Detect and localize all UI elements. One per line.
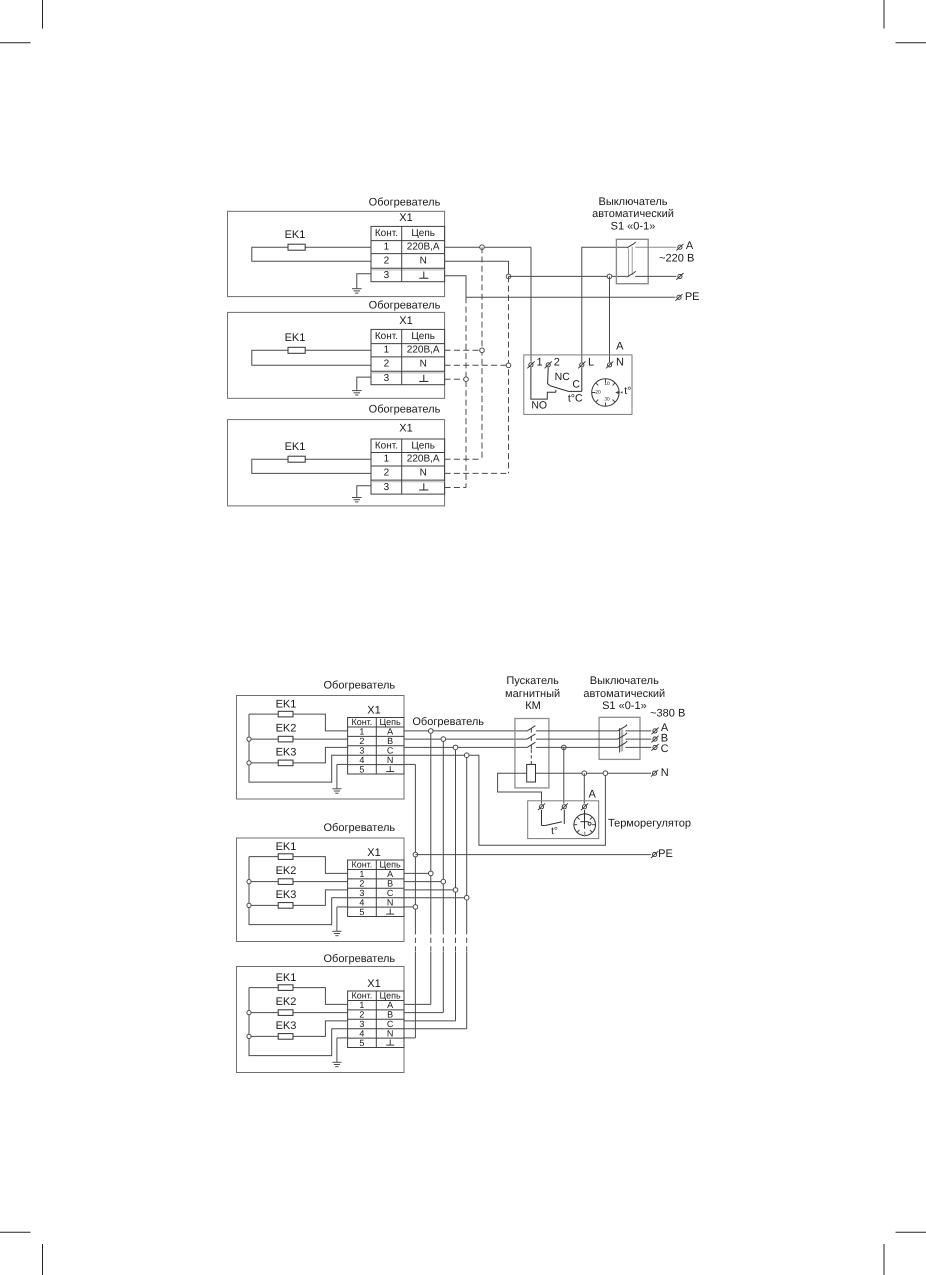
wire heater3 pin3 to bus C [404, 1020, 456, 1022]
contactor KM box [515, 719, 549, 788]
star junction nodes (heater 3 bottom) [247, 1011, 251, 1039]
ground symbol (heater 2 bottom) [332, 931, 341, 935]
heater 1 (top) enclosure box [228, 211, 445, 296]
heater 1 (top diagram) label Обогреватель [369, 196, 441, 208]
svg-text:5: 5 [359, 764, 364, 774]
svg-text:5: 5 [359, 1038, 364, 1048]
svg-text:Цепь: Цепь [379, 717, 401, 727]
breaker S1 linkage bars [629, 247, 633, 277]
thermostat NC fixed contact from terminal 2 [548, 368, 550, 386]
ground symbol (heater 3 bottom) [332, 1062, 341, 1066]
svg-text:X1: X1 [399, 315, 412, 327]
svg-text:2: 2 [554, 356, 560, 368]
svg-text:NC: NC [555, 371, 571, 383]
wire heater1 pin4 N around thermostat to N line [404, 753, 605, 845]
node label PE (bottom) [658, 848, 673, 860]
wire heater1 pin1 A to contactor KM [404, 729, 527, 734]
resistor EK3 (heater 3 bottom) [276, 1020, 297, 1039]
wire EK2 to pin 2 (heater 2 bottom) [293, 881, 348, 883]
resistor EK1 (heater 2 bottom) [276, 841, 297, 860]
thermostat label Терморегулятор [608, 817, 691, 829]
wire EK3 to pin 3 (heater 3 bottom) [293, 1021, 348, 1037]
wire EK1 right to pin 1 (heater 2 top) [305, 349, 371, 351]
svg-text:A: A [616, 340, 624, 352]
wire EK1 left loop to pin 2 (heater 1 top) [252, 247, 371, 261]
circuit breaker S1 box (bottom) [599, 717, 640, 759]
svg-text:EK2: EK2 [276, 996, 297, 1008]
svg-text:C: C [572, 379, 580, 391]
dashed wire heater2 pin1 to bus A [445, 348, 485, 353]
breaker S1 bottom linkage bars [620, 728, 622, 752]
svg-text:EK1: EK1 [276, 698, 297, 710]
svg-text:EK1: EK1 [276, 972, 297, 984]
breaker S1 pole 3 blade (bottom) [618, 741, 627, 747]
wire heater1 pin3 to PE line [445, 276, 676, 298]
svg-text:Пускатель: Пускатель [506, 675, 559, 687]
thermostat terminal 2 [545, 362, 552, 369]
svg-text:3: 3 [384, 270, 390, 281]
svg-text:2: 2 [359, 736, 364, 746]
svg-text:L: L [588, 357, 594, 369]
thermostat terminal 1 [527, 362, 534, 369]
wire heater1 pin1 (220V,A) to node, solid [445, 246, 531, 248]
svg-text:N: N [387, 898, 394, 908]
wire pin 3 to chassis ground (heater 1 top) [357, 274, 371, 289]
junction N to heater return [603, 771, 608, 776]
thermostat box (bottom) [528, 801, 599, 839]
svg-text:Выключатель: Выключатель [590, 675, 659, 687]
dashed wire heater2 pin3 to bus PE [445, 377, 469, 382]
terminal block X1 label (heater 2 top) [399, 315, 412, 327]
wire heater2 pin4 to bus N [404, 895, 469, 900]
junction node N to thermostat [607, 274, 612, 279]
svg-text:B: B [387, 1010, 393, 1020]
wire heater2 pin1 to bus A [404, 871, 433, 876]
svg-text:2: 2 [359, 1010, 364, 1020]
svg-text:Конт.: Конт. [375, 440, 398, 451]
wire heater1 pin2 B to contactor KM [404, 737, 527, 742]
star point wires to pin 4 N (heater 3 bottom) [249, 988, 348, 1056]
ground symbol (heater 3 top) [352, 498, 362, 502]
svg-text:Обогреватель: Обогреватель [369, 196, 441, 208]
heater 1 (bottom diagram) label Обогреватель [323, 680, 395, 692]
svg-text:X1: X1 [367, 704, 380, 716]
contactor KM contact 3 [527, 742, 535, 749]
svg-text:S1 «0-1»: S1 «0-1» [602, 700, 647, 712]
terminal block X1 table (heater 3 top) [371, 439, 445, 494]
svg-text:X1: X1 [399, 212, 412, 224]
wire heater2 pin3 to bus C [404, 888, 458, 893]
svg-text:Конт.: Конт. [351, 860, 372, 870]
resistor EK2 (heater 2 bottom) [276, 865, 297, 884]
crop mark top-right [884, 0, 926, 43]
svg-text:Выключатель: Выключатель [598, 196, 667, 208]
thermostat terminal N [606, 362, 613, 369]
junction N to dial [582, 771, 587, 776]
svg-text:~220 В: ~220 В [659, 253, 694, 265]
terminal PE (bottom) [651, 851, 658, 858]
wire N junction down to dial terminal [583, 773, 585, 803]
breaker S1 pole 2 blade (bottom) [618, 733, 627, 739]
resistor EK2 (heater 3 bottom) [276, 996, 297, 1015]
crop mark top-left [0, 0, 43, 43]
supply terminal C (bottom) [651, 744, 658, 751]
ground symbol (heater 1 top) [352, 289, 362, 293]
wire heater3 pin2 to bus B [404, 1012, 443, 1014]
wire EK1 left loop to pin 2 (heater 2 top) [252, 350, 371, 365]
resistor EK1 (heater 3 top) [285, 441, 306, 462]
svg-text:B: B [387, 879, 393, 889]
wire EK1 to pin 1 (heater 1 bottom) [293, 714, 348, 731]
heater 3 (bottom) enclosure box [237, 967, 405, 1073]
svg-text:Цепь: Цепь [379, 860, 401, 870]
wire breaker output A [635, 246, 676, 248]
resistor EK1 (heater 1 bottom) [276, 698, 297, 717]
svg-text:-20: -20 [594, 389, 601, 395]
PE line to terminal [415, 854, 651, 856]
supply terminal N (top) [676, 273, 683, 280]
wire EK1 left loop to pin 2 (heater 3 top) [252, 459, 371, 473]
heater 2 (top diagram) label Обогреватель [369, 299, 441, 311]
svg-text:Обогреватель: Обогреватель [369, 404, 441, 416]
node label PE (top) [685, 291, 700, 303]
dashed wire heater3 pin3 to bus PE [445, 487, 466, 489]
contactor KM label [505, 675, 560, 712]
breaker S1 pole 1 blade (bottom) [618, 725, 627, 731]
svg-text:EK3: EK3 [276, 747, 297, 759]
wire L terminal to common pivot [581, 368, 583, 392]
svg-text:2: 2 [384, 255, 390, 266]
svg-text:EK1: EK1 [285, 332, 306, 344]
dashed wire heater2 pin2 to bus N [445, 363, 511, 368]
breaker S1 pole 2 blade [627, 271, 636, 277]
svg-text:Цепь: Цепь [411, 440, 435, 451]
svg-text:220В,А: 220В,А [407, 345, 440, 356]
wire heater1 pin3 C to contactor KM [404, 745, 527, 750]
svg-text:Цепь: Цепь [411, 228, 435, 239]
wire KM coil left to thermostat [498, 773, 542, 803]
resistor EK2 (heater 1 bottom) [276, 722, 297, 741]
thermostat contact labels [531, 371, 583, 412]
svg-text:Обогреватель: Обогреватель [323, 680, 395, 692]
svg-text:2: 2 [384, 468, 390, 479]
wire EK3 to pin 3 (heater 1 bottom) [293, 747, 348, 763]
svg-text:30: 30 [604, 396, 610, 402]
svg-text:10: 10 [604, 381, 610, 387]
svg-text:EK3: EK3 [276, 889, 297, 901]
terminal block X1 label (heater 3 bottom) [367, 978, 380, 990]
thermostat dial assembly (top) [592, 379, 623, 406]
heater 2 (top) enclosure box [228, 312, 445, 398]
dashed wire heater3 pin1 to bus A [445, 458, 482, 460]
wires S1 output to terminals [625, 731, 651, 748]
bus PE vertical (bottom) [414, 764, 416, 1038]
ground symbol (heater 1 bottom) [332, 789, 341, 793]
terminal block X1 table (heater 1 bottom) [348, 717, 404, 774]
contactor KM contact 2 [527, 734, 535, 741]
star point wires to pin 4 N (heater 2 bottom) [249, 857, 348, 925]
thermostat terminal L [578, 362, 585, 369]
heater 2 (bottom) enclosure box [237, 838, 405, 942]
svg-text:EK1: EK1 [276, 841, 297, 853]
svg-text:t°: t° [624, 385, 631, 397]
wire pin 5 to chassis ground (heater 1 bottom) [337, 764, 348, 788]
crop mark bottom-right [884, 1232, 926, 1275]
svg-text:1: 1 [384, 454, 390, 465]
svg-text:220В,А: 220В,А [407, 454, 440, 465]
PE line junction [413, 852, 418, 857]
wire EK1 to pin 1 (heater 3 bottom) [293, 988, 348, 1005]
svg-text:Конт.: Конт. [351, 717, 372, 727]
svg-text:X1: X1 [367, 978, 380, 990]
svg-text:КМ: КМ [525, 700, 541, 712]
circuit breaker S1 label (bottom) [583, 675, 665, 712]
svg-text:X1: X1 [367, 847, 380, 859]
bus N vertical (bottom) [466, 755, 468, 1028]
terminal block X1 label (heater 1 bottom) [367, 704, 380, 716]
node label A and ~220V [659, 240, 694, 265]
svg-text:1: 1 [384, 242, 390, 253]
dashed bus A to heaters 2,3 (top) [481, 247, 483, 459]
thermostat dial (bottom) [574, 810, 596, 837]
svg-text:N: N [420, 255, 427, 266]
wire heater2 pin2 to bus B [404, 879, 446, 884]
svg-text:NO: NO [531, 400, 547, 412]
heater 3 (bottom diagram) label Обогреватель [323, 953, 395, 965]
label Обогреватель for bus cable (bottom) [412, 716, 484, 728]
svg-text:Обогреватель: Обогреватель [412, 716, 484, 728]
svg-text:C: C [661, 743, 669, 755]
svg-text:t°: t° [551, 826, 558, 837]
wire C phase junction down to thermostat [562, 745, 567, 803]
wires KM to S1 poles A,B,C [536, 731, 618, 748]
svg-text:3: 3 [384, 373, 390, 384]
svg-text:EK1: EK1 [285, 441, 306, 453]
supply terminal N (bottom) [651, 770, 658, 777]
junction node N bus [506, 274, 511, 279]
svg-text:A: A [686, 240, 694, 252]
svg-text:N: N [387, 1029, 394, 1039]
terminal block X1 label (heater 3 top) [399, 423, 412, 435]
svg-text:3: 3 [384, 482, 390, 493]
contactor KM contact 1 [527, 726, 535, 733]
supply terminal B (bottom) [651, 736, 658, 743]
wire heater3 pin1 to bus A [404, 1003, 431, 1005]
node label A (bottom thermostat) [589, 788, 597, 800]
wire EK2 to pin 2 (heater 1 bottom) [293, 738, 348, 740]
wire heater3 pin4 to bus N [404, 1028, 467, 1030]
wire EK1 right to pin 1 (heater 3 top) [305, 458, 371, 460]
resistor EK1 (heater 2 top) [285, 332, 306, 353]
wire N line to breaker S1 [509, 275, 627, 277]
dashed wire heater3 pin2 to bus N [445, 472, 509, 474]
terminal block X1 label (heater 1 top) [399, 212, 412, 224]
wire heater1 pin5 PE down [404, 763, 415, 765]
svg-text:1: 1 [537, 356, 543, 368]
resistor EK3 (heater 1 bottom) [276, 747, 297, 766]
terminal block X1 label (heater 2 bottom) [367, 847, 380, 859]
svg-text:220В,А: 220В,А [407, 242, 440, 253]
resistor EK1 (heater 3 bottom) [276, 972, 297, 991]
svg-text:Цепь: Цепь [379, 991, 401, 1001]
svg-text:Конт.: Конт. [375, 228, 398, 239]
svg-text:EK3: EK3 [276, 1020, 297, 1032]
wire EK1 to pin 1 (heater 2 bottom) [293, 857, 348, 874]
svg-text:PE: PE [658, 848, 673, 860]
supply labels ~380V A B C [650, 708, 685, 756]
thermostat terminal labels [537, 356, 625, 368]
svg-text:N: N [616, 357, 624, 369]
N line from coil to terminal N [536, 772, 652, 774]
svg-text:Обогреватель: Обогреватель [369, 299, 441, 311]
star point wires to pin 4 N (heater 1 bottom) [249, 714, 348, 782]
svg-text:N: N [661, 767, 669, 779]
heater 2 (bottom diagram) label Обогреватель [323, 822, 395, 834]
svg-text:Конт.: Конт. [351, 991, 372, 1001]
svg-text:A: A [589, 788, 597, 800]
wire down to thermostat terminal 1 [530, 247, 532, 362]
svg-text:EK1: EK1 [285, 229, 306, 241]
thermostat switch blade (t C) [550, 386, 582, 392]
star junction nodes (heater 1 bottom) [247, 737, 251, 765]
wire pin 3 to chassis ground (heater 2 top) [357, 377, 371, 391]
circuit breaker S1 box (top) [616, 239, 648, 283]
bus C vertical (bottom) [455, 747, 457, 1021]
svg-text:автоматический: автоматический [592, 208, 674, 220]
heater 3 (top diagram) label Обогреватель [369, 404, 441, 416]
switch label t deg [551, 826, 558, 837]
resistor EK1 (heater 1 top) [285, 229, 306, 250]
wire N down to thermostat terminal N [609, 276, 611, 362]
wire breaker output N [635, 275, 676, 277]
wire heater2 pin5 to bus PE [404, 905, 418, 910]
svg-text:1: 1 [384, 345, 390, 356]
thermostat terminal left (from KM coil) [538, 803, 545, 810]
svg-text:X1: X1 [399, 423, 412, 435]
svg-text:2: 2 [384, 359, 390, 370]
breaker S1 pole 1 blade [627, 242, 636, 248]
heater 3 (top) enclosure box [228, 420, 445, 506]
circuit breaker S1 label (top) [592, 196, 674, 232]
contactor KM coil [527, 764, 536, 782]
svg-text:S1 «0-1»: S1 «0-1» [611, 220, 656, 232]
svg-text:магнитный: магнитный [505, 688, 560, 700]
terminal block X1 table (heater 3 bottom) [348, 991, 404, 1048]
wire pin 5 to chassis ground (heater 3 bottom) [337, 1038, 348, 1062]
wire pin 5 to chassis ground (heater 2 bottom) [337, 907, 348, 931]
svg-text:t°С: t°С [568, 393, 583, 405]
svg-text:Обогреватель: Обогреватель [323, 953, 395, 965]
terminal block X1 table (heater 1 top) [371, 226, 445, 281]
wire heater3 pin5 to bus PE [404, 1037, 415, 1039]
contactor KM mechanical linkage dashed [530, 750, 532, 765]
terminal PE (top) [675, 294, 682, 301]
wire EK3 to pin 3 (heater 2 bottom) [293, 890, 348, 906]
terminal block X1 table (heater 2 top) [371, 329, 445, 384]
dashed bus N to heaters 2,3 (top) [508, 276, 510, 473]
terminal block X1 table (heater 2 bottom) [348, 860, 404, 917]
resistor EK3 (heater 2 bottom) [276, 889, 297, 908]
svg-text:Цепь: Цепь [411, 331, 435, 342]
node label N (bottom) [661, 767, 669, 779]
thermostat NO contact path [531, 368, 556, 399]
svg-text:5: 5 [359, 907, 364, 917]
svg-text:N: N [420, 359, 427, 370]
wire pin 3 to chassis ground (heater 3 top) [357, 486, 371, 498]
svg-text:EK2: EK2 [276, 722, 297, 734]
thermostat terminal right (dial, node A) [581, 803, 588, 810]
wire heater1 pin2 (N) right and down [445, 261, 509, 276]
crop mark bottom-left [0, 1232, 43, 1275]
thermostat terminal middle (phase C) [561, 803, 568, 810]
svg-text:PE: PE [685, 291, 700, 303]
heater 1 (bottom) enclosure box [237, 696, 405, 800]
svg-text:автоматический: автоматический [583, 688, 665, 700]
svg-text:~380 В: ~380 В [650, 708, 685, 720]
svg-text:2: 2 [359, 879, 364, 889]
ground symbol (heater 2 top) [352, 391, 362, 395]
svg-text:B: B [387, 736, 393, 746]
svg-text:Терморегулятор: Терморегулятор [608, 817, 691, 829]
node label A above thermostat N [616, 340, 624, 352]
svg-text:N: N [420, 468, 427, 479]
thermostat switch t deg (bottom) [542, 810, 565, 826]
thermostat box (top) [524, 355, 632, 415]
svg-text:Конт.: Конт. [375, 331, 398, 342]
junction node A bus [480, 245, 485, 250]
star junction nodes (heater 2 bottom) [247, 880, 251, 908]
wire EK2 to pin 2 (heater 3 bottom) [293, 1012, 348, 1014]
svg-text:N: N [387, 755, 394, 765]
bus A vertical (bottom) [430, 731, 432, 1005]
supply terminal A (top) [676, 244, 683, 251]
dashed bus PE to heaters 2,3 (top) [465, 297, 467, 487]
bus B vertical (bottom) [442, 739, 444, 1013]
svg-text:EK2: EK2 [276, 865, 297, 877]
supply terminal A (bottom) [651, 728, 658, 735]
wire EK1 right to pin 1 (heater 1 top) [305, 246, 371, 248]
svg-text:Обогреватель: Обогреватель [323, 822, 395, 834]
wire thermostat L up and to breaker S1 input [582, 247, 627, 362]
dial pointer label t deg [624, 385, 631, 397]
